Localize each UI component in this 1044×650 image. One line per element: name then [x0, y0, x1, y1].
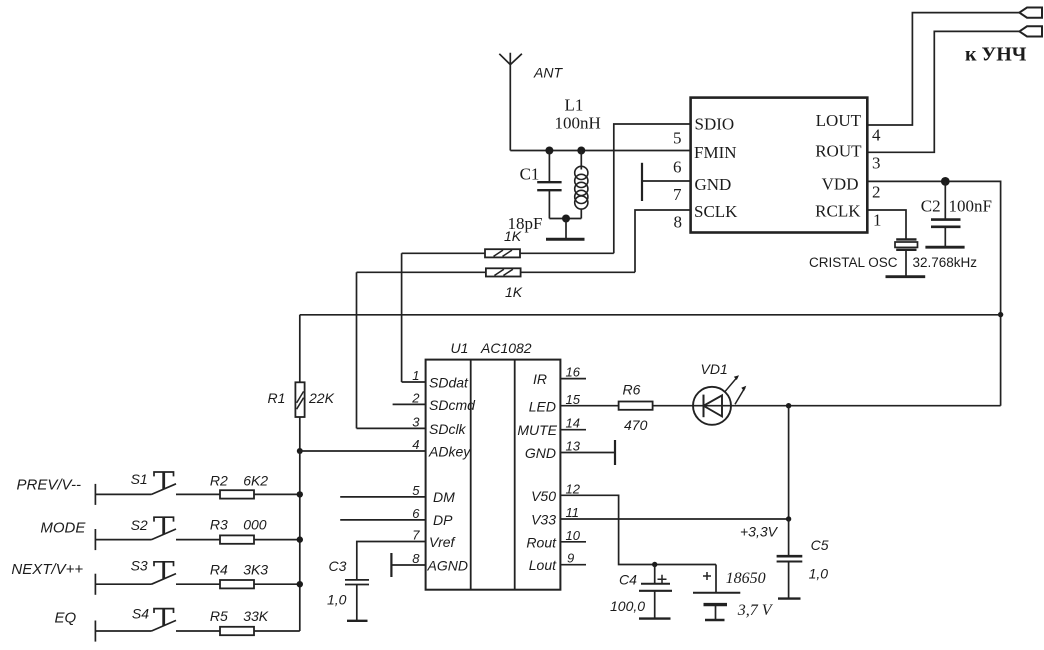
wire: SDIO pin 5 to 1K	[614, 124, 691, 253]
svg-text:C1: C1	[520, 165, 540, 184]
svg-text:V50: V50	[531, 488, 556, 504]
svg-text:14: 14	[566, 416, 580, 431]
wire: 1K lower to U1 pin 3	[356, 272, 358, 428]
svg-text:7: 7	[412, 528, 420, 543]
svg-text:R3: R3	[210, 516, 228, 532]
svg-text:GND: GND	[525, 445, 556, 461]
svg-text:15: 15	[566, 392, 581, 407]
svg-text:L1: L1	[565, 96, 584, 115]
wire: SCLK pin 8 to 1K	[635, 210, 691, 272]
svg-text:8: 8	[412, 551, 420, 566]
svg-text:SDdat: SDdat	[429, 375, 469, 391]
connector arrow (LOUT)	[1019, 8, 1042, 18]
svg-text:R4: R4	[210, 562, 228, 578]
svg-text:2: 2	[411, 390, 420, 405]
wire: 1K upper to U1 pin 1	[401, 253, 403, 382]
svg-text:Lout: Lout	[529, 557, 557, 573]
wire: VDD rail	[867, 181, 1000, 405]
svg-text:1K: 1K	[504, 228, 522, 244]
node: C2 junction	[941, 177, 950, 186]
svg-text:6: 6	[412, 506, 420, 521]
svg-text:C2: C2	[921, 197, 941, 216]
svg-text:5: 5	[673, 129, 682, 148]
svg-text:V33: V33	[531, 512, 556, 528]
svg-text:1: 1	[412, 368, 419, 383]
capacitor C1 18pF	[508, 151, 562, 233]
svg-text:+3,3V: +3,3V	[740, 524, 779, 540]
ground (crystal)	[886, 275, 926, 278]
svg-text:LOUT: LOUT	[816, 111, 862, 130]
svg-text:ROUT: ROUT	[815, 142, 862, 161]
svg-text:3: 3	[872, 153, 881, 172]
capacitor C4 100,0 (electrolytic)	[610, 565, 672, 619]
svg-text:S3: S3	[131, 558, 148, 574]
svg-text:AGND: AGND	[427, 558, 468, 574]
ground (LC tank)	[565, 219, 567, 239]
svg-text:R6: R6	[623, 382, 641, 398]
svg-text:7: 7	[673, 185, 682, 204]
node: S3 bus junction	[297, 581, 303, 587]
svg-text:1K: 1K	[505, 284, 523, 300]
svg-text:32.768kHz: 32.768kHz	[913, 255, 978, 270]
pin 10 stub	[560, 541, 586, 543]
svg-text:100nH: 100nH	[555, 114, 601, 133]
svg-text:S1: S1	[131, 471, 148, 487]
wire: pin 12 V50 to battery node	[560, 495, 716, 564]
svg-text:SCLK: SCLK	[694, 202, 738, 221]
ground (battery)	[705, 619, 725, 621]
svg-text:3K3: 3K3	[243, 562, 268, 578]
battery 18650 3,7V	[693, 565, 774, 620]
pin 9 stub	[560, 564, 586, 566]
svg-text:18650: 18650	[726, 570, 766, 587]
svg-text:NEXT/V++: NEXT/V++	[11, 561, 83, 578]
svg-text:100nF: 100nF	[949, 197, 992, 216]
svg-text:R2: R2	[210, 473, 228, 489]
svg-text:SDcmd: SDcmd	[429, 397, 476, 413]
pin 7 Vref wire	[357, 542, 426, 580]
ground (C4)	[639, 617, 671, 619]
op chip U1 AC1082 box	[426, 360, 561, 590]
node: L1 top junction	[577, 147, 585, 155]
wire: antenna to FMIN	[510, 150, 690, 152]
svg-text:22K: 22K	[308, 390, 335, 406]
svg-text:SDclk: SDclk	[429, 421, 467, 437]
svg-text:C3: C3	[329, 558, 347, 574]
svg-text:S2: S2	[131, 517, 148, 533]
svg-text:RCLK: RCLK	[815, 202, 861, 221]
svg-text:16: 16	[566, 365, 581, 380]
pin 14 stub	[560, 429, 586, 431]
svg-text:000: 000	[243, 516, 267, 532]
svg-text:IR: IR	[533, 371, 547, 387]
wire: ROUT to connector	[867, 31, 1019, 152]
svg-text:S4: S4	[132, 606, 149, 622]
svg-text:PREV/V--: PREV/V--	[17, 476, 81, 493]
svg-text:R5: R5	[210, 608, 228, 624]
resistor 1K (upper)	[402, 228, 614, 258]
crystal oscillator	[809, 210, 977, 276]
resistor 1K (lower)	[357, 268, 636, 300]
svg-text:MUTE: MUTE	[517, 422, 557, 438]
svg-text:9: 9	[567, 551, 574, 566]
connector arrow (ROUT)	[1019, 26, 1042, 36]
capacitor C2 100nF	[921, 181, 992, 246]
node: +3.3V junction	[786, 516, 791, 521]
svg-text:SDIO: SDIO	[695, 115, 735, 134]
svg-text:Vref: Vref	[429, 534, 457, 550]
svg-text:C4: C4	[619, 572, 637, 588]
node: C1 top junction	[545, 147, 553, 155]
svg-text:1: 1	[873, 211, 882, 230]
node: rail / R1 feed junction	[998, 312, 1003, 317]
wire: pin 11 V33 to +3.3V node	[560, 518, 788, 520]
svg-text:12: 12	[566, 481, 581, 496]
resistor R1 22K	[268, 315, 335, 451]
svg-text:EQ: EQ	[55, 609, 77, 626]
wire: ADkey to U1 pin 4	[300, 450, 426, 452]
svg-text:DM: DM	[433, 489, 455, 505]
svg-text:2: 2	[872, 183, 881, 202]
capacitor C5 1,0	[777, 519, 829, 598]
capacitor C3 1,0	[327, 558, 369, 620]
svg-text:MODE: MODE	[40, 519, 86, 536]
key S2 MODE row	[40, 516, 299, 550]
wire: 3.3V distribution rail	[300, 314, 1001, 316]
svg-text:470: 470	[624, 417, 648, 433]
key S1 PREV row	[17, 471, 300, 505]
svg-text:4: 4	[412, 437, 419, 452]
svg-text:ANT: ANT	[533, 65, 563, 81]
svg-text:ADkey: ADkey	[428, 444, 471, 460]
node: ADkey junction	[297, 448, 303, 454]
svg-text:6K2: 6K2	[243, 473, 268, 489]
svg-text:VD1: VD1	[701, 361, 728, 377]
svg-text:10: 10	[566, 528, 581, 543]
svg-text:6: 6	[673, 158, 682, 177]
pin 1 stub	[402, 381, 426, 383]
antenna	[499, 53, 522, 151]
svg-text:DP: DP	[433, 512, 453, 528]
resistor R6 470	[619, 382, 653, 433]
pin 5 stub DM	[340, 496, 425, 498]
svg-text:1,0: 1,0	[327, 592, 347, 608]
pin 13 GND stub and bar	[560, 452, 615, 454]
svg-text:4: 4	[872, 126, 881, 145]
svg-text:U1: U1	[451, 340, 469, 356]
svg-text:11: 11	[566, 505, 580, 520]
svg-text:VDD: VDD	[822, 175, 859, 194]
wire: +3.3V branch down	[788, 406, 790, 519]
svg-text:8: 8	[674, 213, 683, 232]
svg-text:AC1082: AC1082	[480, 340, 532, 356]
inductor L1 100nH	[555, 96, 601, 219]
key S4 EQ row	[55, 606, 300, 642]
svg-text:GND: GND	[695, 175, 732, 194]
node: LED / rail junction	[786, 403, 791, 408]
svg-text:CRISTAL OSC: CRISTAL OSC	[809, 255, 898, 270]
key S3 NEXT row	[11, 558, 299, 595]
svg-text:13: 13	[566, 439, 581, 454]
svg-text:5: 5	[412, 483, 420, 498]
svg-text:C5: C5	[811, 537, 829, 553]
wire: pin 15 to R6	[560, 405, 618, 407]
svg-text:3,7 V: 3,7 V	[737, 602, 774, 619]
ground (C5)	[778, 597, 801, 599]
wire: key bus	[299, 451, 301, 631]
node: tank bottom junction	[562, 215, 570, 223]
svg-text:3: 3	[412, 414, 420, 429]
svg-text:FMIN: FMIN	[694, 143, 737, 162]
pin 16 stub	[560, 378, 586, 380]
wire: R6 through LED to rail	[653, 405, 1001, 407]
svg-text:LED: LED	[529, 399, 556, 415]
radio IC (tuner) box	[691, 98, 868, 233]
wire: C1/L1 bottoms	[549, 218, 581, 220]
svg-text:1,0: 1,0	[809, 566, 829, 582]
pin 3 stub	[357, 427, 426, 429]
ground (C2)	[925, 246, 964, 249]
LED VD1	[693, 361, 746, 425]
node: C4 / battery junction	[652, 562, 657, 567]
svg-text:Rout: Rout	[526, 534, 557, 550]
wire: LOUT to connector	[867, 13, 1019, 125]
svg-text:к УНЧ: к УНЧ	[965, 44, 1027, 66]
node: S2 bus junction	[297, 536, 303, 542]
svg-text:100,0: 100,0	[610, 598, 645, 614]
ground (C3)	[347, 620, 368, 622]
pin 8 AGND stub and bar	[391, 564, 425, 566]
svg-text:R1: R1	[268, 390, 286, 406]
pin 6 stub DP	[340, 519, 425, 521]
pin 2 stub (SDcmd, open)	[393, 403, 426, 405]
ground bar at GND pin 7	[642, 180, 691, 182]
svg-text:33K: 33K	[243, 608, 269, 624]
node: S1 bus junction	[297, 491, 303, 497]
